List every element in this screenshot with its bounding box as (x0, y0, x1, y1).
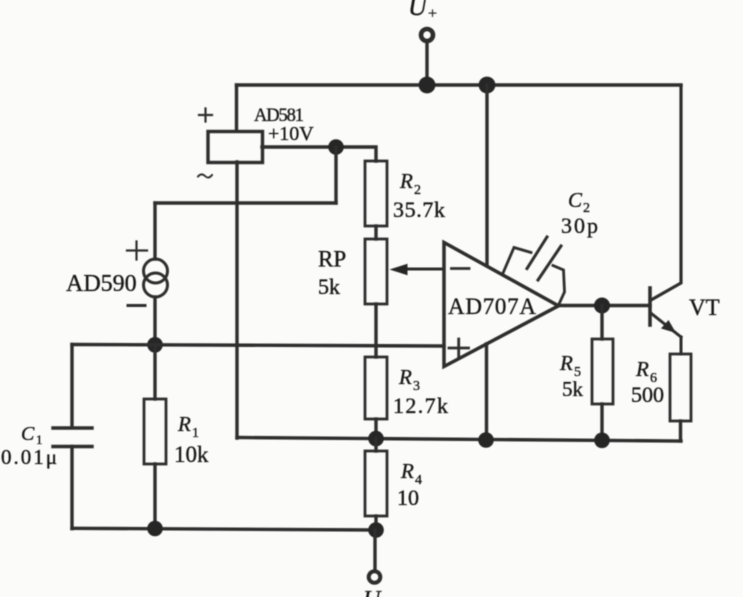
wire +10V tap down (334, 147, 337, 203)
resistor R4 (365, 451, 422, 516)
wire C1 top lead (70, 345, 73, 428)
svg-text:12.7k: 12.7k (393, 393, 448, 418)
wire mid rail (237, 438, 681, 442)
wire op-amp V- pin (485, 344, 488, 440)
wire U- lead (373, 530, 376, 571)
wire R1 top lead (153, 345, 156, 399)
junction dot V- mid rail (478, 432, 494, 448)
svg-text:10: 10 (397, 485, 419, 510)
plus sign AD590 (127, 242, 147, 260)
wire R4 bottom lead (374, 516, 377, 530)
svg-text:35.7k: 35.7k (393, 197, 445, 222)
wire R1 bottom lead (153, 464, 156, 529)
resistor R2 (365, 161, 445, 226)
svg-text:C: C (568, 188, 583, 212)
svg-text:10k: 10k (174, 442, 209, 467)
potentiometer RP (318, 239, 387, 304)
junction dot bottom rail R4 (368, 522, 384, 538)
svg-text:5k: 5k (562, 377, 584, 401)
wire noninverting input rail (72, 345, 444, 347)
svg-text:AD707A: AD707A (448, 294, 536, 319)
junction dot +10V node (328, 139, 344, 155)
svg-text:R: R (177, 412, 191, 436)
minus sign AD581 (198, 174, 212, 177)
wire op-amp V+ pin (485, 85, 488, 265)
minus sign AD590 (128, 304, 145, 307)
wire RP to R3 (374, 304, 377, 357)
capacitor C2 (503, 188, 598, 304)
voltage reference AD581 (208, 106, 314, 163)
wire R5 top lead (600, 306, 603, 340)
svg-text:R: R (400, 459, 414, 483)
svg-text:U: U (408, 0, 429, 21)
wire top supply rail (237, 83, 682, 86)
current source AD590 (66, 259, 168, 297)
wire C1 bottom lead (70, 447, 73, 529)
resistor R5 (559, 339, 613, 404)
svg-text:1: 1 (192, 426, 199, 441)
svg-text:3: 3 (413, 379, 420, 394)
svg-text:R: R (559, 351, 573, 375)
junction dot AD590 node (147, 337, 163, 353)
resistor R6 (631, 354, 691, 421)
svg-text:0.01μ: 0.01μ (1, 445, 57, 469)
wire bottom rail (72, 528, 376, 530)
junction dot top rail op-amp supply (479, 77, 496, 94)
svg-text:+10V: +10V (268, 123, 314, 145)
svg-text:R: R (635, 357, 649, 381)
wire +10V output (262, 147, 376, 161)
wire AD581 bottom lead to mid rail (235, 162, 238, 438)
wire AD581 top lead (235, 85, 238, 131)
wire R2 to RP (374, 226, 377, 239)
svg-text:500: 500 (631, 382, 664, 407)
wire AD590 bottom lead (153, 297, 156, 345)
svg-text:U: U (363, 587, 382, 597)
terminal U- (363, 571, 382, 597)
svg-text:2: 2 (414, 183, 421, 198)
svg-text:C: C (21, 423, 35, 445)
transistor VT (650, 86, 720, 354)
wire U+ lead (425, 42, 428, 85)
resistor R3 (365, 357, 448, 419)
resistor R1 (144, 399, 209, 467)
wire tap across to AD590 (155, 201, 336, 204)
svg-text:RP: RP (318, 247, 346, 272)
junction dot R5 mid rail (594, 433, 610, 449)
svg-text:+: + (428, 6, 437, 23)
junction dot R1 bottom (147, 521, 163, 537)
svg-text:30p: 30p (561, 213, 598, 238)
wire R5 bottom lead (600, 404, 603, 440)
svg-text:R: R (399, 169, 413, 193)
junction dot top rail U+ (419, 77, 436, 94)
svg-text:5k: 5k (318, 274, 340, 299)
svg-text:VT: VT (689, 295, 720, 320)
wire R4 top lead (374, 439, 377, 451)
capacitor C1 (1, 423, 92, 469)
junction dot R3 R4 mid rail (368, 431, 384, 447)
svg-text:R: R (398, 365, 412, 389)
op-amp AD707A (444, 243, 559, 367)
wiper arrow RP (390, 264, 445, 275)
junction dot output node (594, 298, 610, 314)
plus sign AD581 (199, 109, 212, 122)
terminal U+ (408, 0, 437, 41)
wire AD590 top lead (153, 203, 156, 259)
wire R3 bottom lead (374, 419, 377, 439)
wire op-amp output (559, 304, 650, 307)
svg-text:AD590: AD590 (66, 271, 137, 297)
wire R6 bottom lead (679, 421, 682, 441)
